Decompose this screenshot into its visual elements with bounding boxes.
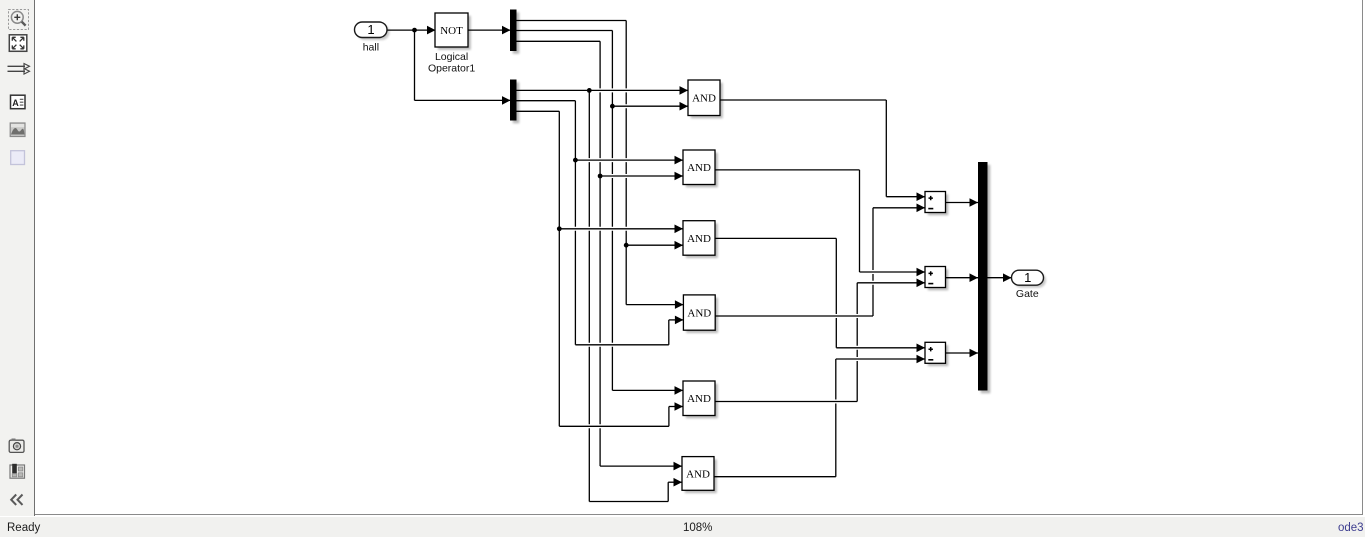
wire demux2 out3 <box>517 110 560 112</box>
svg-text:AND: AND <box>687 307 711 319</box>
svg-text:AND: AND <box>687 233 711 245</box>
AND block 6 <box>682 457 717 494</box>
arrow AND3-in2 <box>675 241 684 250</box>
svg-text:AND: AND <box>686 468 710 480</box>
wire demux2 out1 to AND1-in1 <box>517 89 689 91</box>
svg-text:NOT: NOT <box>440 25 463 37</box>
junction AND3-in1 <box>557 226 562 231</box>
wire AND5-out up <box>856 283 858 402</box>
arrow into Gate <box>1003 273 1012 282</box>
toolbar icon fit-to-view <box>9 35 27 52</box>
svg-text:hall: hall <box>363 41 379 53</box>
arrow AND2-in1 <box>675 156 684 165</box>
toolbar icon model browser <box>10 464 25 478</box>
toolbar icon collapse chevrons <box>11 495 22 505</box>
wire AND2-out down <box>859 170 861 272</box>
arrow into demux1 <box>502 26 511 35</box>
AND block 2 <box>683 150 718 187</box>
wire to AND2-in2 <box>600 175 683 177</box>
wire demux1-out1 down <box>625 21 627 305</box>
wire demux2-out3 down <box>558 111 560 426</box>
arrow mux-in3 <box>970 349 979 358</box>
left toolbar strip <box>0 0 35 516</box>
wire to sum1 plus <box>886 196 925 198</box>
wire demux2-out2 down <box>574 101 576 345</box>
toolbar icon image <box>10 123 25 137</box>
arrow AND1-in2 <box>680 102 689 111</box>
wire to AND1-in2 <box>612 105 688 107</box>
svg-text:1: 1 <box>1024 270 1031 285</box>
wire to AND6-in2 <box>668 481 682 483</box>
arrow sum2 plus <box>917 268 926 277</box>
wire demux1 out3 <box>517 40 601 42</box>
wire to AND5-in1 <box>612 389 683 391</box>
wire AND6 out <box>714 476 836 478</box>
wire branch to demux2 <box>415 99 512 101</box>
wire to AND2-in1 <box>575 159 683 161</box>
wire to sum3 minus <box>836 358 926 360</box>
sum block 2 <box>925 267 948 291</box>
AND block 1 <box>688 80 723 118</box>
AND block 4 <box>683 295 718 333</box>
wire AND4 out <box>715 315 873 317</box>
arrow AND4-in2 <box>675 316 684 325</box>
arrow mux-in2 <box>970 273 979 282</box>
mux bar <box>978 162 990 393</box>
junction AND3-in2 <box>624 243 629 248</box>
toolbar icon camera <box>9 439 24 453</box>
arrow AND5-in2 <box>675 402 684 411</box>
toolbar icon zoom (selected) <box>9 10 29 30</box>
wire sum3 to mux <box>946 352 979 354</box>
wire AND4-in2 run <box>575 344 668 346</box>
sum block 1 <box>925 192 948 216</box>
arrow AND5-in1 <box>675 386 684 395</box>
wire to sum1 minus <box>873 207 926 209</box>
wire to sum2 minus <box>857 282 925 284</box>
wire AND5 out <box>715 401 857 403</box>
arrow mux-in1 <box>970 198 979 207</box>
wire NOT to demux1 <box>468 29 511 31</box>
svg-text:Gate: Gate <box>1016 288 1039 300</box>
wire riser AND5-in2 <box>668 407 670 427</box>
wire AND3 out <box>715 237 836 239</box>
arrow AND2-in2 <box>675 172 684 181</box>
arrow into demux2 <box>502 96 511 105</box>
logic block NOT (Logical Operator1) <box>435 13 471 50</box>
wire to sum3 plus <box>836 347 925 349</box>
inport block hall <box>355 22 390 40</box>
arrow AND3-in1 <box>675 225 684 234</box>
arrow sum2 minus <box>917 279 926 288</box>
wire AND3-out down <box>835 238 837 347</box>
toolbar icon area <box>11 151 25 165</box>
junction demux2-out1 <box>587 88 592 93</box>
svg-text:A: A <box>12 98 19 108</box>
arrow sum3 plus <box>917 344 926 353</box>
toolbar icon annotation <box>11 95 26 109</box>
demux bar 2 <box>510 80 519 124</box>
wire sum1 to mux <box>946 202 979 204</box>
junction AND2-in1 <box>573 158 578 163</box>
svg-text:AND: AND <box>687 393 711 405</box>
wire demux2 out2 <box>517 100 576 102</box>
wire to AND5-in2 <box>669 406 684 408</box>
wire AND6-in2 run <box>589 501 668 503</box>
svg-text:AND: AND <box>692 93 716 105</box>
outport block Gate <box>1012 270 1047 288</box>
wire hall to NOT <box>387 29 436 31</box>
junction AND1-in2 <box>610 104 615 109</box>
wire demux1 out2 <box>517 30 613 32</box>
toolbar icon signal lines <box>8 64 30 75</box>
demux bar 1 <box>510 10 519 54</box>
sum block 3 <box>925 342 948 366</box>
AND block 3 <box>683 221 718 258</box>
wire sum2 to mux <box>946 277 979 279</box>
wire to AND3-in2 <box>626 244 683 246</box>
arrow into NOT <box>427 26 436 35</box>
junction hall branch <box>412 28 417 33</box>
wire AND2 out <box>715 169 860 171</box>
wire mux to Gate <box>988 277 1013 279</box>
wire AND6-out up <box>835 359 837 477</box>
svg-text:1: 1 <box>367 22 374 37</box>
wire AND4-out up <box>872 208 874 316</box>
wire AND1-out down <box>885 100 887 197</box>
arrow AND1-in1 <box>680 86 689 95</box>
wire to AND4-in1 <box>626 304 684 306</box>
wire demux2-out1 down <box>588 90 590 501</box>
wire to AND3-in1 <box>559 228 683 230</box>
wire demux1-out3 down <box>599 41 601 466</box>
svg-text:AND: AND <box>687 162 711 174</box>
junction AND2-in2 <box>598 174 603 179</box>
wire hall branch down <box>414 30 416 100</box>
wire AND1 out <box>720 99 886 101</box>
status bar <box>0 517 1365 537</box>
arrow AND6-in2 <box>674 478 683 487</box>
wire demux1-out2 down <box>611 31 613 391</box>
svg-text:Operator1: Operator1 <box>428 62 475 74</box>
wire to sum2 plus <box>860 271 926 273</box>
wire riser AND6-in2 <box>667 482 669 501</box>
arrow sum3 minus <box>917 355 926 364</box>
wire AND5-in2 run <box>559 425 669 427</box>
wire to AND4-in2 <box>669 319 684 321</box>
arrow sum1 plus <box>917 192 926 201</box>
wire demux1 out1 <box>517 20 627 22</box>
arrow AND6-in1 <box>674 462 683 471</box>
wire riser AND4-in2 <box>668 320 670 345</box>
wire to AND6-in1 <box>600 465 682 467</box>
AND block 5 <box>683 381 718 418</box>
arrow AND4-in1 <box>675 300 684 309</box>
arrow sum1 minus <box>917 204 926 213</box>
